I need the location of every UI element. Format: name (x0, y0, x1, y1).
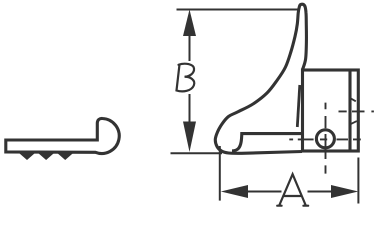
dimension B: top extension line (177, 9, 298, 11)
thread tick upper on right face (350, 98, 356, 101)
dimension A: left extension line (219, 146, 221, 201)
right view: foot ledge step (232, 134, 301, 151)
thread tick lower on right face (351, 121, 357, 124)
dimension B: vertical line upper segment (189, 34, 191, 61)
label B (177, 64, 195, 92)
dimension A: right extension line (357, 158, 359, 204)
dimension B: vertical line lower segment (189, 94, 191, 123)
right view: hook arm (beak, S-curve, foot) (215, 4, 306, 153)
right view: mount block (303, 70, 359, 151)
label A (277, 174, 308, 206)
dimension B: bottom extension line (171, 152, 223, 154)
left view: serration teeth under bar (21, 154, 71, 159)
centerline: hole horizontal (dash-dot) (289, 138, 361, 140)
dimension A: right arrowhead (331, 185, 358, 198)
dimension A: line left segment (248, 191, 282, 193)
right view: arm seam line against block (297, 85, 300, 127)
dimension B: bottom arrowhead (183, 122, 196, 153)
right view: hole circle (316, 130, 334, 148)
dimension A: line right segment (308, 191, 332, 193)
right view: inner line of block right face (348, 72, 351, 150)
centerline: right face horizontal (dash-dot) (339, 110, 374, 112)
centerline: hole vertical (dash-dot) (325, 103, 327, 174)
dimension B: top arrowhead (183, 10, 196, 37)
left view: track bar with rounded bead end (6, 118, 119, 153)
dimension A: left arrowhead (221, 185, 248, 198)
